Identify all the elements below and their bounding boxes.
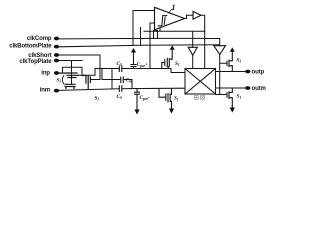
svg-text:inp: inp [41, 71, 50, 77]
svg-text:clkBottomPlate: clkBottomPlate [9, 44, 52, 50]
ground arrow (output bottom) [230, 108, 235, 113]
wire inp top jog [63, 67, 83, 75]
svg-text:S1: S1 [237, 94, 242, 100]
power VDD arrow (output top) [230, 47, 235, 51]
wire clkComp bus [59, 37, 205, 40]
capacitor Cm [121, 77, 124, 83]
switch S1 input shorting [62, 76, 64, 84]
wire comparator minus input [150, 23, 154, 69]
svg-text:clkTopPlate: clkTopPlate [19, 59, 52, 65]
comparator U1 [155, 7, 185, 30]
wire inp rail [59, 69, 185, 76]
transistor S1 output pull (top) [227, 52, 232, 72]
svg-text:Cpar+: Cpar+ [137, 62, 148, 68]
wire inverter A1 to latch [192, 55, 194, 68]
wire Cm bridge [102, 69, 132, 89]
node inm terminal [54, 89, 59, 93]
node clkBottomPlate terminal [54, 45, 59, 49]
wire outp rail [216, 71, 248, 73]
svg-text:S1: S1 [175, 61, 180, 67]
wire node vertical [111, 69, 113, 89]
svg-text:S1: S1 [237, 58, 242, 64]
svg-text:S2: S2 [95, 96, 100, 102]
svg-text:inm: inm [40, 88, 50, 94]
wire comparator output to buffer [185, 15, 194, 18]
svg-text:CS: CS [117, 94, 122, 100]
buffer U2 [193, 12, 201, 20]
latch caption glyphs [194, 96, 204, 100]
capacitor CS bottom [119, 86, 122, 92]
capacitor Cpar+ [131, 53, 136, 69]
wire outm rail [216, 87, 248, 89]
wire clkTopPlate [59, 60, 82, 62]
wire comparator clock prongs [154, 31, 158, 39]
wire stub [140, 28, 142, 46]
power VDD arrow (Cpar+) [131, 48, 136, 53]
capacitor CS top [119, 66, 122, 72]
wire clkBottomPlate bus [59, 45, 220, 47]
wire clkShort [59, 55, 100, 80]
label 1 pointer [169, 9, 173, 13]
svg-text:S1: S1 [174, 96, 179, 102]
node clkShort terminal [54, 53, 59, 57]
wire buffer output [201, 15, 220, 68]
transistor S1 output pull (bottom) [227, 88, 232, 107]
transistor M3 S2 shorting switch [82, 76, 90, 89]
svg-text:outp: outp [252, 70, 265, 76]
transistor S1 reset (bottom, to GND) [159, 89, 172, 109]
inverter A1 (drives latch) [188, 47, 197, 55]
wire clkTopPlate gate drop [71, 61, 73, 85]
svg-text:1: 1 [172, 3, 176, 12]
svg-text:CS: CS [117, 61, 122, 67]
node outm terminal [245, 86, 250, 90]
ground arrow (Cpar-) [134, 110, 139, 115]
transistor S1 reset (top, to VDD) [162, 50, 172, 69]
svg-text:S1: S1 [57, 78, 62, 84]
power VDD arrow (S1 top) [170, 45, 175, 50]
wire inverter A2 output [216, 55, 228, 95]
wire comparator plus input [133, 11, 155, 46]
wire comparator inverted output [144, 28, 205, 48]
svg-text:Cm: Cm [126, 78, 132, 84]
latch box [185, 69, 216, 95]
svg-text:clkComp: clkComp [27, 36, 52, 42]
transistor M1 (clkTopPlate series switch, inp) [59, 73, 78, 78]
inverter A2 (drives output switches) [214, 46, 226, 55]
transistor M2 (clkTopPlate series switch, inm) [65, 84, 75, 88]
capacitor Cpar- [135, 89, 140, 110]
node clkComp terminal [54, 37, 59, 41]
node inp terminal [54, 71, 59, 75]
node clkTopPlate terminal [54, 59, 59, 63]
svg-text:Cpar-: Cpar- [140, 95, 150, 101]
ground arrow (S1 bottom) [169, 109, 174, 114]
wire inm rail [59, 88, 185, 90]
node outp terminal [245, 70, 250, 74]
svg-text:outm: outm [252, 86, 266, 92]
